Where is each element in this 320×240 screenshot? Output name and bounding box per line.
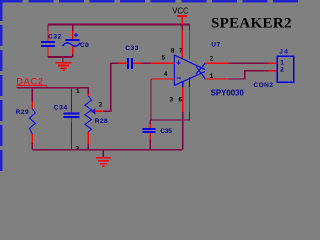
pin 6: [189, 77, 191, 87]
connector J4: [253, 49, 293, 89]
pin J4.2: [269, 70, 277, 72]
svg-text:C33: C33: [125, 45, 139, 52]
wire op-amp out 2 to J4 pin 1: [229, 62, 269, 64]
pin C34.2: [71, 118, 73, 122]
net label DAC2: [16, 76, 47, 86]
svg-text:8: 8: [171, 48, 175, 55]
wire C0 bottom lead: [72, 54, 74, 57]
pin R28.2: [95, 110, 103, 112]
potentiometer R28: [76, 88, 109, 153]
pin C0.-: [72, 46, 74, 54]
ground (bottom rail): [96, 150, 111, 167]
svg-text:CON2: CON2: [253, 82, 273, 89]
wiper arrow: [91, 108, 95, 114]
C33 plates: [127, 58, 129, 69]
pin C34.1: [71, 111, 73, 113]
pin C0.+: [72, 31, 74, 40]
wire R28 bottom lead: [87, 144, 89, 150]
wire C35 top lead: [149, 120, 151, 124]
pin 2 output lead: [205, 62, 229, 64]
wire C33 to op-amp: [142, 62, 151, 64]
svg-text:2: 2: [210, 55, 214, 62]
svg-text:1: 1: [76, 88, 80, 95]
svg-text:VCC: VCC: [172, 6, 189, 15]
svg-text:J4: J4: [279, 49, 289, 56]
svg-text:C0: C0: [80, 42, 89, 49]
wire R29 bottom lead: [31, 143, 33, 150]
pin C32.2: [47, 47, 49, 57]
crossing output stubs: [196, 63, 206, 79]
pin R28.1: [87, 94, 89, 97]
pin R28.3: [87, 132, 89, 144]
op-amp U7: [150, 25, 244, 150]
svg-text:2: 2: [280, 66, 284, 73]
pin 8: [181, 25, 183, 31]
power port VCC: [172, 6, 189, 24]
wire caps bottom: [48, 56, 73, 58]
wire VCC top rail: [48, 24, 190, 26]
svg-text:R28: R28: [95, 118, 108, 125]
svg-text:U7: U7: [211, 42, 221, 49]
capacitor C33: [111, 45, 142, 69]
C35 plates: [143, 128, 156, 130]
svg-text:5: 5: [162, 55, 166, 62]
svg-text:2: 2: [99, 102, 103, 109]
ground (below C32/C0): [56, 57, 72, 70]
pin C32.1: [47, 31, 49, 41]
resistor R29: [16, 88, 36, 150]
pin C33.1: [119, 62, 127, 64]
wire bottom rail: [32, 149, 182, 151]
wire C0 top lead: [72, 25, 74, 32]
capacitor C0 (polarized): [63, 25, 90, 58]
wire R29 top lead: [31, 88, 33, 102]
svg-text:3: 3: [170, 97, 174, 104]
pin 5: [151, 62, 175, 64]
svg-text:C32: C32: [48, 34, 62, 41]
capacitor C35: [143, 120, 173, 150]
wire C32 top lead: [47, 25, 49, 32]
C34 plates: [64, 112, 80, 114]
wire R28 top lead: [87, 88, 89, 94]
pin C35.1: [149, 124, 151, 128]
wire DAC2 rail: [17, 87, 89, 89]
wire C33 left lead: [111, 62, 119, 64]
pin 1 output lead: [205, 78, 229, 80]
pin 7: [189, 25, 191, 31]
pin 4: [151, 78, 174, 80]
R29 zigzag body: [30, 109, 36, 134]
wire C35 bottom lead: [149, 140, 151, 150]
wire pin 6 loop to C35: [150, 112, 189, 120]
pin R29.1: [31, 101, 33, 108]
J4 body: [277, 56, 294, 82]
pin R29.2: [31, 134, 33, 143]
svg-text:SPEAKER2: SPEAKER2: [211, 16, 292, 32]
svg-text:R29: R29: [16, 109, 29, 116]
plus input mark: [176, 61, 180, 65]
wire C34 top lead: [71, 88, 73, 111]
svg-text:6: 6: [179, 97, 183, 104]
svg-text:C35: C35: [160, 128, 172, 135]
wire op-amp out 1 to J4 pin 2: [229, 71, 269, 79]
triangle body: [174, 55, 205, 86]
wire pin 3 to bottom rail: [182, 112, 184, 150]
R28 zigzag body: [85, 96, 92, 132]
C32 plates: [41, 41, 55, 43]
svg-text:4: 4: [164, 71, 168, 78]
capacitor C32: [41, 25, 62, 58]
pin C35.2: [149, 133, 151, 139]
wire wiper to C33: [103, 63, 111, 111]
pin J4.1: [269, 62, 277, 64]
capacitor C34: [54, 88, 80, 150]
C0 positive plate: [66, 39, 80, 41]
minus input mark: [177, 77, 181, 79]
svg-text:SPY0030: SPY0030: [211, 88, 245, 97]
pin 3: [182, 81, 184, 87]
wire pin4 feedback branch: [149, 79, 152, 120]
plus sign: [74, 33, 78, 37]
svg-text:C34: C34: [54, 105, 68, 112]
pin C33.2: [133, 62, 142, 64]
C0 curved plate: [63, 43, 81, 47]
wire C34 bottom lead: [71, 122, 73, 149]
